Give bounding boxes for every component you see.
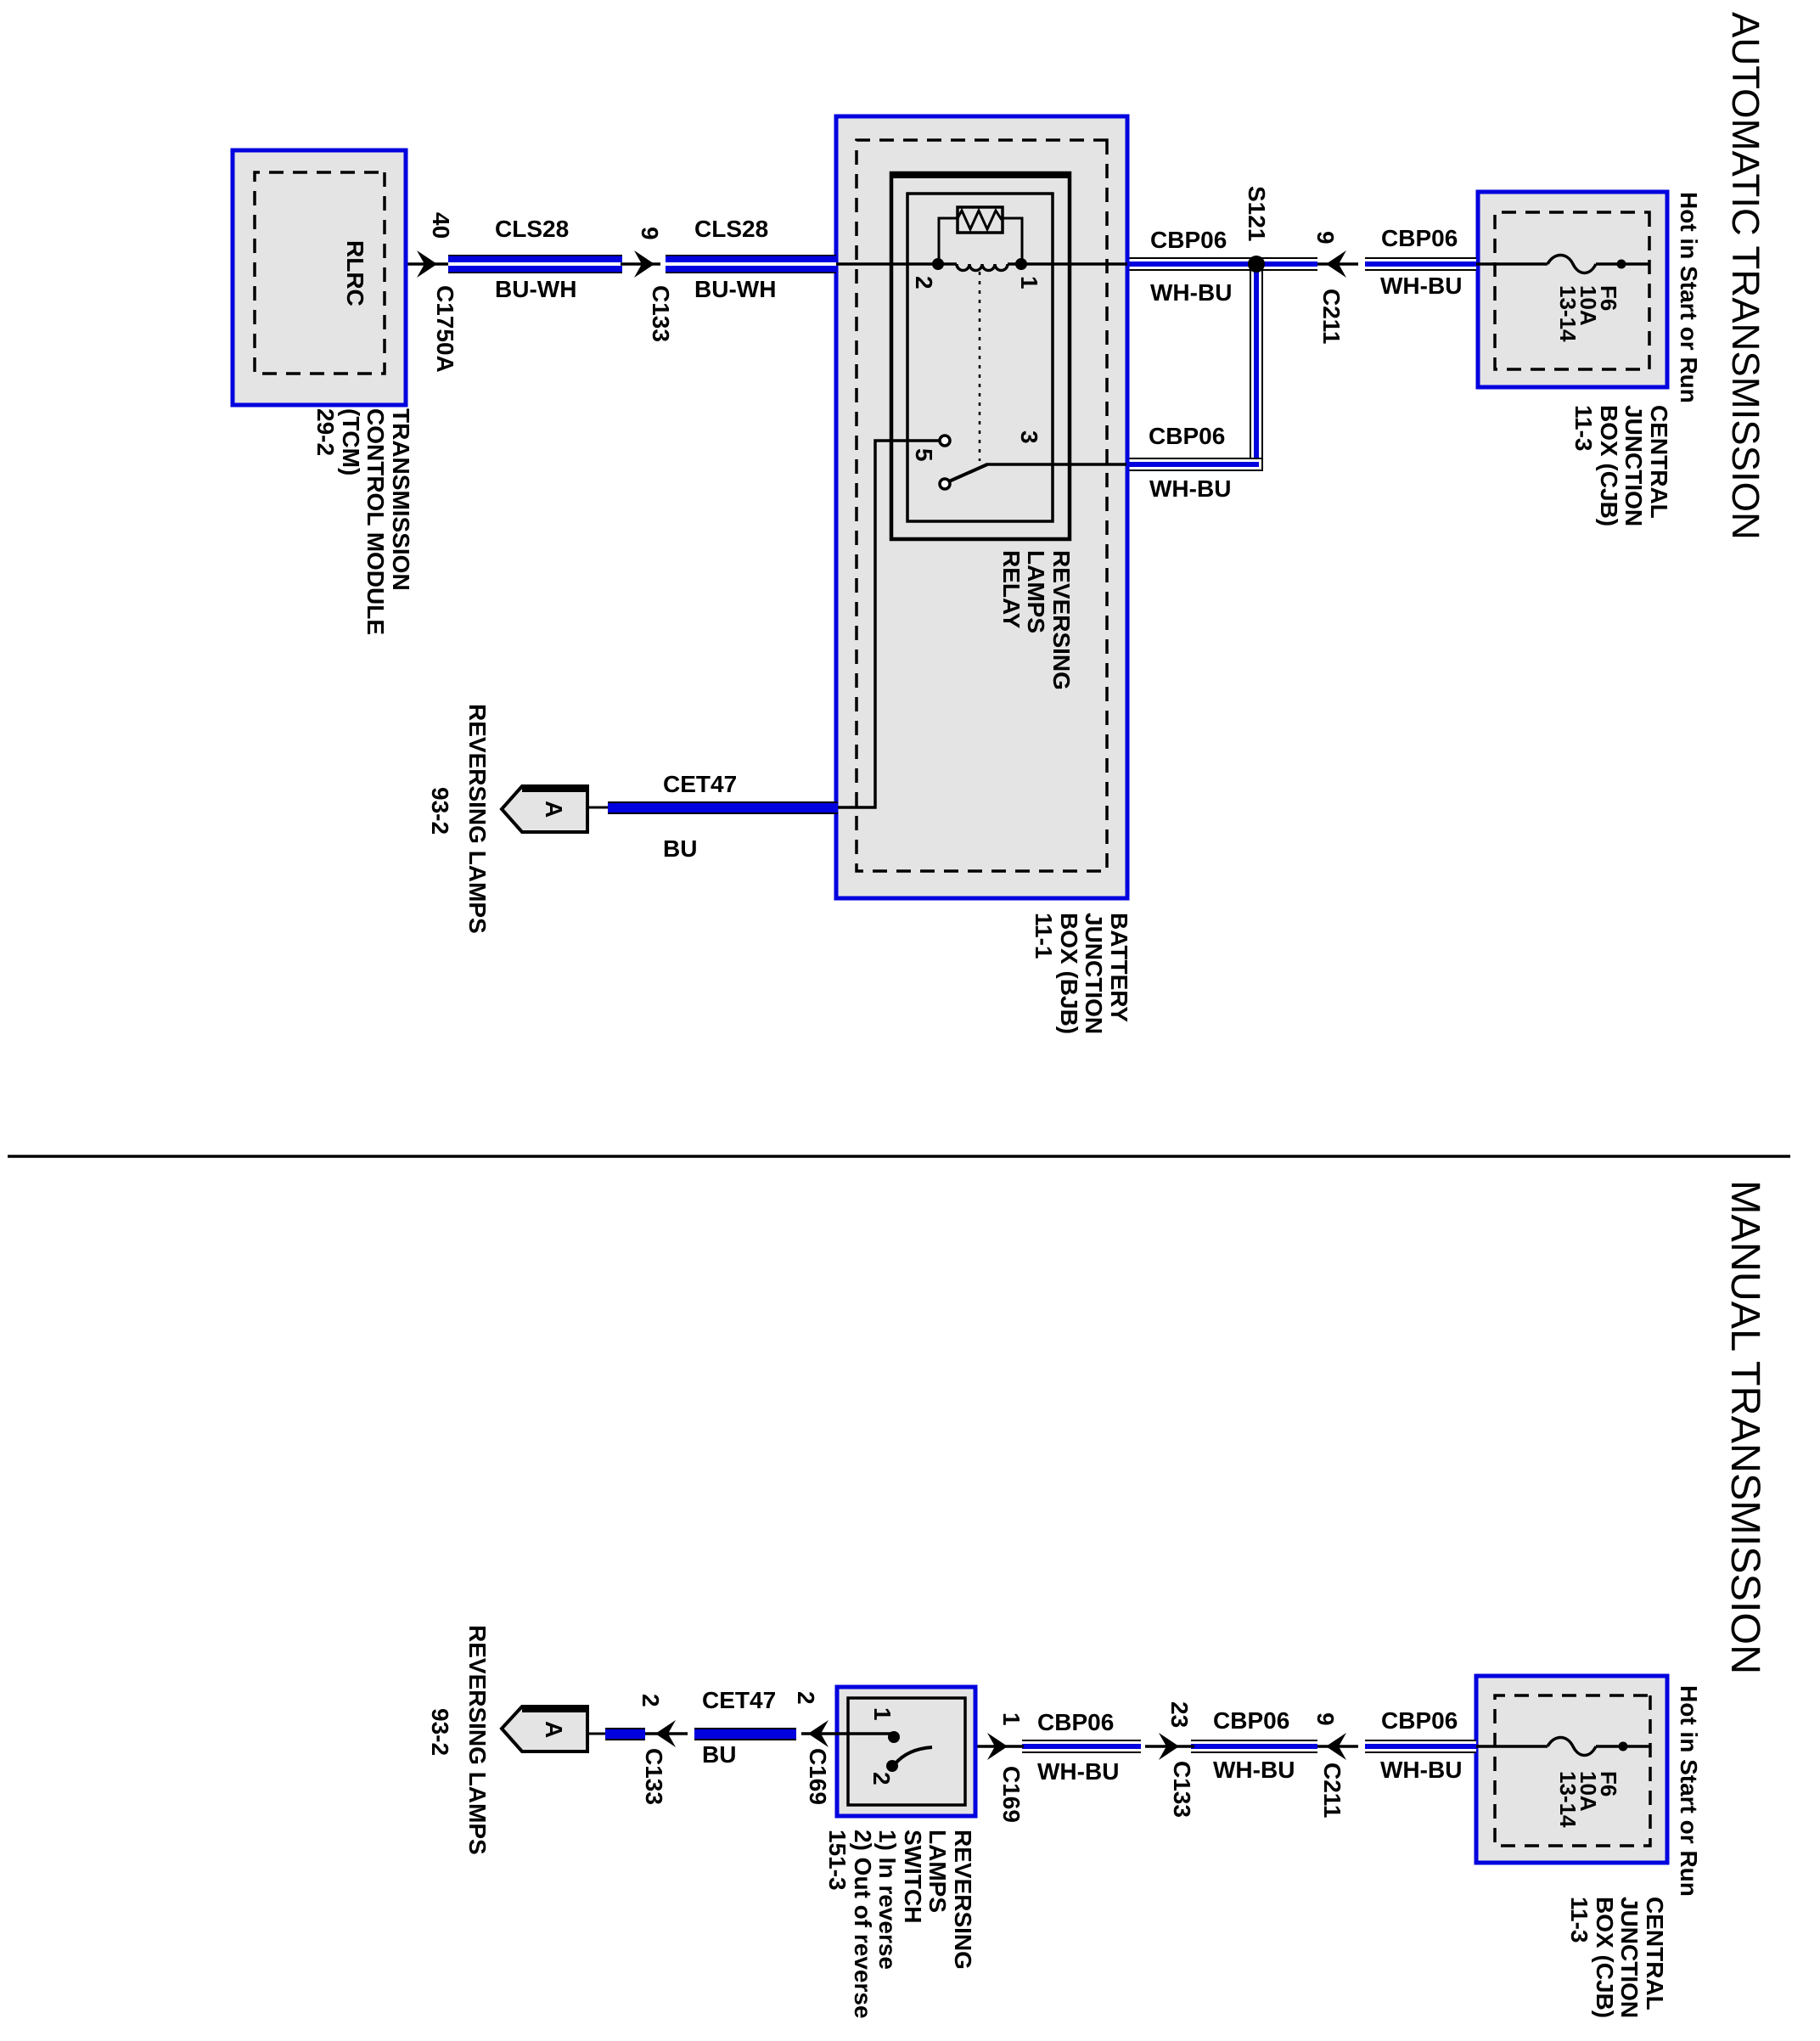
BJB box [836,116,1127,898]
title MANUAL TRANSMISSION [1722,1180,1769,1674]
CJB box (manual section) [1476,1676,1667,1863]
resistor zigzag [957,211,1002,229]
label relay pin 5 [911,448,936,462]
relay pin 3 wire [986,463,1126,466]
label 93-2 (manual) [427,1708,452,1756]
connector C133 stub (manual lower) [644,1732,688,1735]
relay pin 1 dot [1015,258,1027,270]
relay pin 2 dot [932,258,944,270]
CJB box (automatic section) [1478,192,1667,387]
label pin 9 at C133 (automatic) [637,227,662,240]
fuse F6 symbol [1548,256,1596,273]
connector C133 stub (manual) [1145,1745,1194,1748]
wire CET47 BU solid (BJB to A) [608,801,838,814]
label C133 (manual lower) [641,1748,666,1805]
label pin 9 at C211 (manual) [1312,1712,1338,1726]
wire CBP06 (C133 to C169 manual) [1022,1740,1141,1753]
title AUTOMATIC TRANSMISSION [1723,12,1767,540]
label S121 [1244,186,1269,241]
label Hot in Start or Run (automatic) [1676,192,1701,403]
label pin 40 at TCM [428,212,453,239]
TCM pin 40 stub wire [402,262,450,266]
label A (automatic connector) [541,801,566,818]
label relay pin 2 [911,276,936,290]
section divider line [8,1155,1790,1158]
label C133 (automatic) [648,285,673,342]
label RLRC [342,240,368,306]
switch position 2 dot [886,1760,898,1772]
relay outer thick left edge [891,171,1070,178]
CJB inner dashed box (manual) [1495,1695,1650,1846]
label CBP06 (manual segment 2) [1213,1708,1289,1734]
label C1750A [432,285,458,373]
label switch position 2 [868,1772,894,1785]
label WH-BU (S121 to BJB segment) [1150,280,1232,306]
label WH-BU (branch segment) [1149,476,1231,502]
label CENTRAL JUNCTION BOX (CJB) 11-3 (automatic) [1571,405,1671,526]
switch output wire [801,1732,894,1735]
fuse F6 symbol (manual) [1548,1738,1596,1756]
label CBP06 (branch segment) [1149,424,1225,449]
relay inner rectangle [907,194,1053,521]
label CBP06 (manual segment 1) [1381,1708,1458,1734]
relay coil [938,264,1021,271]
label CBP06 (CJB segment, automatic) [1381,226,1458,251]
label REVERSING LAMPS (manual) [464,1625,490,1855]
wire CBP06 (C211 to C133 manual) [1191,1740,1317,1753]
label WH-BU (manual segment 2) [1213,1757,1295,1783]
label C211 (automatic) [1318,289,1344,344]
connector C211 stub wire [1317,262,1358,266]
wire from CJB bus to fuse [1596,262,1649,266]
connector C133 arrow [634,250,654,278]
wire into relay pin 1 [1020,262,1127,266]
wire fuse to CJB edge (manual) [1476,1745,1548,1748]
wire BU short segment to A [605,1728,645,1740]
splice S121 dot [1248,256,1265,273]
label C169 (manual input) [998,1766,1024,1823]
connector C169 arrow (input) [987,1733,1008,1760]
label switch position 1 [869,1707,895,1721]
connector C211 arrow [1326,250,1346,278]
wire CLS28 (TCM to C133), BU-WH striped [448,255,622,273]
wire CBP06 (CJB to C211 manual), WH-BU striped [1365,1740,1476,1753]
stub wire to A connector (manual) [586,1733,605,1735]
label CLS28 (upper segment) [694,216,768,242]
label WH-BU (manual segment 1) [1380,1757,1462,1783]
label C133 (manual) [1169,1761,1194,1818]
label Hot in Start or Run (manual) [1676,1685,1701,1897]
switch position 1 dot [888,1731,900,1743]
label BATTERY JUNCTION BOX (BJB) 11-1 [1031,913,1132,1034]
wire CBP06 branch vertical to relay pin 3 [1126,458,1263,471]
relay pin 5 wire to BJB edge [838,441,940,807]
label pin 23 at C133 (manual) [1166,1701,1192,1728]
connector C169 arrow (output) [808,1720,829,1747]
CJB inner dashed box [1495,212,1649,369]
wire from relay pin 2 out of BJB [836,262,938,266]
wire from fuse to CJB edge [1476,262,1548,266]
wire CBP06 branch horizontal from S121 [1250,264,1263,471]
label fuse F6 10A 13-14 (manual) [1558,1771,1619,1828]
switch inner rectangle [848,1698,965,1805]
connector C211 arrow (manual) [1326,1733,1346,1760]
reversing lamps switch box [837,1687,975,1816]
label BU-WH (lower segment) [495,277,576,302]
label CENTRAL JUNCTION BOX (CJB) 11-3 (manual) [1567,1897,1667,2018]
wire to fuse (manual) [1596,1745,1650,1748]
label TRANSMISSION CONTROL MODULE (TCM) 29-2 [313,408,413,635]
resistor lead from pin 2 [939,218,958,264]
relay switch arm [949,464,987,481]
bus junction dot (manual CJB) [1619,1742,1628,1751]
relay outer rectangle [891,173,1070,539]
label WH-BU (CJB segment, automatic) [1380,273,1462,299]
resistor lead from pin 1 [1003,218,1022,264]
connector C211 stub (manual) [1317,1745,1358,1748]
relay actuator dotted link [979,272,981,461]
label WH-BU (manual segment 3) [1037,1759,1119,1785]
label BU (manual) [702,1742,736,1768]
label C211 (manual) [1319,1763,1345,1818]
relay movable contact circle [940,479,950,489]
label pin 2 at C133 (manual lower) [638,1694,663,1707]
label 93-2 (automatic) [427,787,452,835]
A connector pentagon (manual) [502,1706,589,1751]
label relay pin 1 [1016,276,1042,290]
stub wire to A connector [586,807,608,809]
label CBP06 (S121 to BJB segment) [1150,228,1227,253]
label relay pin 3 [1016,430,1042,444]
TCM inner dashed box [255,172,385,374]
label pin 1 at C169 (manual input) [998,1712,1024,1726]
connector C169 stub into switch [932,1745,1024,1748]
A connector pentagon (automatic) [502,786,589,832]
label REVERSING LAMPS SWITCH block [825,1830,975,2019]
BJB inner dashed box [857,140,1107,871]
TCM pin 40 arrow [417,250,437,278]
label pin 9 at C211 (automatic) [1312,231,1338,245]
TCM box [233,150,406,405]
wire CBP06 (C211 to BJB), WH-BU striped [1127,257,1317,271]
resistor box [958,207,1003,233]
label C169 (manual output) [805,1748,830,1805]
wire CBP06 (CJB to C211), WH-BU striped [1365,257,1476,271]
label CET47 (automatic) [663,772,737,797]
label pin 2 at C169 (manual output) [793,1691,818,1705]
label CLS28 (lower segment) [495,216,569,242]
label CBP06 (manual segment 3) [1037,1710,1114,1735]
label A (manual connector) [541,1721,566,1738]
wire CLS28 (C133 to BJB), BU-WH striped [666,255,836,273]
connector C133 arrow (manual lower) [655,1720,676,1747]
relay pin 5 contact circle [940,436,950,446]
wire CET47 BU (manual) [694,1728,796,1740]
connector C133 arrow (manual) [1159,1733,1179,1760]
switch arm [895,1747,932,1764]
label REVERSING LAMPS RELAY [999,550,1075,690]
label fuse F6 10A 13-14 (automatic) [1558,285,1619,342]
connector C133 stub wire [621,262,660,266]
label BU (automatic) [663,836,697,862]
label REVERSING LAMPS (automatic) [464,704,490,934]
label CET47 (manual) [702,1688,776,1713]
label BU-WH (upper segment) [694,277,776,302]
bus junction dot in CJB [1617,260,1626,269]
